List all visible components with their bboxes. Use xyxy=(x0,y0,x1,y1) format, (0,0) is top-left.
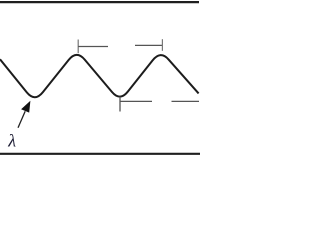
arrowhead xyxy=(21,101,30,113)
tick at valley V2 xyxy=(119,97,121,112)
tick at peak P1 xyxy=(77,40,79,54)
wire bottom dimension line right segment xyxy=(172,100,200,102)
svg-text:λ: λ xyxy=(7,131,16,151)
wire top dimension line left segment xyxy=(78,46,108,48)
wire arrow shaft pointing to valley V1 xyxy=(18,111,25,128)
wire bottom dimension line left segment xyxy=(120,100,152,102)
wire thread-profile wave xyxy=(0,55,199,97)
top border line xyxy=(0,1,199,3)
bottom border line xyxy=(0,153,200,155)
tick at peak P2 xyxy=(161,39,163,51)
wire top dimension line right segment xyxy=(135,44,163,46)
